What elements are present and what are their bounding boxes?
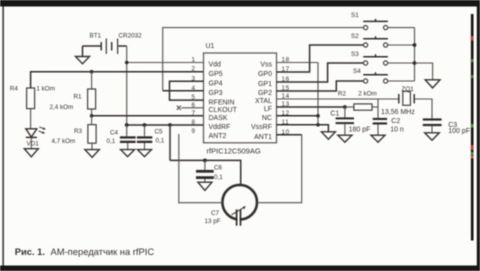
capacitor C4 <box>107 125 136 150</box>
svg-text:0,1: 0,1 <box>156 138 165 145</box>
wire Vss vertical <box>317 63 319 125</box>
svg-text:АМ-передатчик на rfPIC: АМ-передатчик на rfPIC <box>51 246 155 257</box>
crystal ZQ1 <box>381 86 415 116</box>
ground under VD1 <box>24 149 38 157</box>
wire bus to ground <box>415 63 433 80</box>
ground under C3 <box>425 133 440 141</box>
wire pin17 GP0 to S2 <box>277 45 364 72</box>
svg-text:8: 8 <box>191 119 195 126</box>
node LF/R2/C1 <box>343 105 347 109</box>
ground switches <box>425 80 440 88</box>
capacitor C6 <box>196 160 223 182</box>
svg-text:S2: S2 <box>351 33 359 40</box>
capacitor C3 <box>423 118 470 135</box>
ground under C6 <box>198 182 212 190</box>
op IC U1 rfPIC12C509AG <box>204 43 277 155</box>
svg-text:RFENIN: RFENIN <box>209 99 235 106</box>
resistor R1 <box>50 72 96 116</box>
svg-text:13,56 MHz: 13,56 MHz <box>381 109 415 116</box>
wire pin14 XTAL row <box>277 98 399 100</box>
node pin11 <box>316 123 320 127</box>
wire Vdd vertical from battery <box>126 46 128 125</box>
node pin12 <box>316 114 320 118</box>
svg-text:C5: C5 <box>155 129 164 136</box>
svg-text:13 pF: 13 pF <box>205 218 221 225</box>
wire top S1 feed from GP3 <box>163 28 364 91</box>
wire VddRF rail pin8 <box>127 124 204 126</box>
svg-text:R2: R2 <box>338 91 347 98</box>
node C6 top <box>203 159 207 163</box>
switch S3 <box>351 51 388 65</box>
svg-text:2: 2 <box>191 66 195 73</box>
resistor R4 <box>10 86 55 129</box>
svg-text:ANT1: ANT1 <box>254 134 272 141</box>
node rail/battery <box>125 123 129 127</box>
wire switch bus <box>414 28 416 81</box>
wire GP5 rail <box>31 72 204 88</box>
node R1 top <box>90 70 94 74</box>
resistor R3 <box>52 116 97 150</box>
wire pin13 LF <box>277 106 345 108</box>
node bus S3 <box>413 61 417 65</box>
svg-text:1 kOm: 1 kOm <box>36 86 55 93</box>
ground under C4 <box>121 150 135 157</box>
svg-text:GP2: GP2 <box>258 90 272 97</box>
node loop feed <box>168 123 172 127</box>
svg-text:9: 9 <box>191 128 195 135</box>
capacitor C7 trimmer <box>205 206 246 225</box>
svg-text:180 pF: 180 pF <box>349 126 371 133</box>
wire pin12 NC stub <box>277 115 319 117</box>
svg-text:ANT2: ANT2 <box>209 133 227 140</box>
svg-text:DASK: DASK <box>209 115 228 122</box>
svg-text:Vss: Vss <box>260 62 272 69</box>
switch S1 <box>351 12 388 30</box>
capacitor C1 <box>330 107 370 135</box>
svg-text:VD1: VD1 <box>27 141 40 148</box>
svg-text:2,4 kOm: 2,4 kOm <box>50 104 74 111</box>
pin6 CLKOUT stub with x <box>177 106 204 110</box>
svg-text:R4: R4 <box>10 86 19 93</box>
svg-text:LF: LF <box>264 106 272 113</box>
wire crystal to C3 <box>415 99 432 118</box>
svg-text:GP0: GP0 <box>258 71 272 78</box>
pin numbers right <box>282 57 290 136</box>
capacitor C5 <box>137 125 165 150</box>
switch S2 <box>351 33 388 47</box>
svg-text:CR2032: CR2032 <box>119 33 143 40</box>
wire S1 right to bus <box>388 27 415 29</box>
svg-text:GP1: GP1 <box>258 81 272 88</box>
wire pin18 Vss <box>277 62 319 64</box>
svg-text:rfPIC12C509AG: rfPIC12C509AG <box>207 146 261 155</box>
battery BT1 <box>83 33 143 57</box>
wire S4 right to bus <box>388 80 415 82</box>
svg-text:S1: S1 <box>351 12 359 19</box>
ground under C5 <box>138 150 152 157</box>
wire S3 right to bus <box>388 62 415 64</box>
node bus S2 <box>413 43 417 47</box>
svg-text:100 pF: 100 pF <box>448 128 470 135</box>
svg-text:R3: R3 <box>74 128 83 135</box>
wire pin15 GP2 to S4 <box>277 81 364 91</box>
svg-text:Рис. 1.: Рис. 1. <box>15 246 45 257</box>
switch S4 <box>353 68 388 83</box>
wire pin3 to pin5 jog <box>170 81 204 100</box>
svg-text:ZQ1: ZQ1 <box>402 86 415 93</box>
svg-text:VssRF: VssRF <box>251 124 272 131</box>
node C5 top <box>143 123 147 127</box>
wire S2 right to bus <box>388 44 415 46</box>
wire pin4 stub <box>163 90 204 92</box>
svg-text:R1: R1 <box>74 94 83 101</box>
svg-text:10 n: 10 n <box>390 127 404 134</box>
svg-text:0,1: 0,1 <box>214 174 223 181</box>
pin numbers left <box>191 57 195 136</box>
antenna loop WA1 <box>222 185 257 227</box>
ground Vss chain <box>321 132 335 139</box>
wire VddRF to loop top <box>169 125 171 160</box>
svg-text:CLKOUT: CLKOUT <box>209 107 238 114</box>
svg-text:NC: NC <box>262 115 272 122</box>
svg-text:C1: C1 <box>330 110 339 117</box>
svg-text:S4: S4 <box>353 68 361 75</box>
svg-text:VddRF: VddRF <box>209 124 231 131</box>
ground under C2 <box>371 135 385 142</box>
svg-text:C2: C2 <box>391 118 400 125</box>
wire pin1 Vdd <box>127 62 204 64</box>
ground under R3 <box>85 150 99 158</box>
svg-text:7: 7 <box>191 110 195 117</box>
LED VD1 <box>26 127 46 149</box>
wire ANT2 to loop <box>179 134 223 203</box>
svg-text:1: 1 <box>191 57 195 64</box>
svg-text:Vdd: Vdd <box>209 62 222 69</box>
wire ANT1 to loop <box>257 135 302 203</box>
resistor R2 <box>338 91 378 111</box>
wire pin16 GP1 to S3 <box>277 63 364 82</box>
capacitor C2 <box>373 99 404 135</box>
svg-text:XTAL: XTAL <box>255 98 272 105</box>
svg-text:BT1: BT1 <box>90 33 102 40</box>
wire pin11 VssRF stub <box>277 124 319 126</box>
svg-text:0,1: 0,1 <box>107 138 116 145</box>
svg-text:GP4: GP4 <box>209 81 223 88</box>
svg-text:4,7 kOm: 4,7 kOm <box>52 138 76 145</box>
node R1/R3 DASK <box>90 114 94 118</box>
svg-text:2 kOm: 2 kOm <box>358 91 377 98</box>
svg-text:C6: C6 <box>214 165 223 172</box>
ground under C1 <box>338 135 352 142</box>
wire Vss to ground <box>318 125 328 132</box>
svg-text:C7: C7 <box>211 210 220 217</box>
ground under BT1 <box>76 57 90 64</box>
svg-text:C4: C4 <box>110 129 119 136</box>
wire pin10 ANT1 stub <box>277 134 302 136</box>
page frame <box>0 0 480 7</box>
node battery/pin1 <box>125 61 129 65</box>
svg-text:S3: S3 <box>351 51 359 58</box>
svg-text:GP5: GP5 <box>209 71 223 78</box>
svg-text:U1: U1 <box>206 43 215 50</box>
wire DASK pin7 <box>92 115 204 117</box>
svg-text:GP3: GP3 <box>209 90 223 97</box>
